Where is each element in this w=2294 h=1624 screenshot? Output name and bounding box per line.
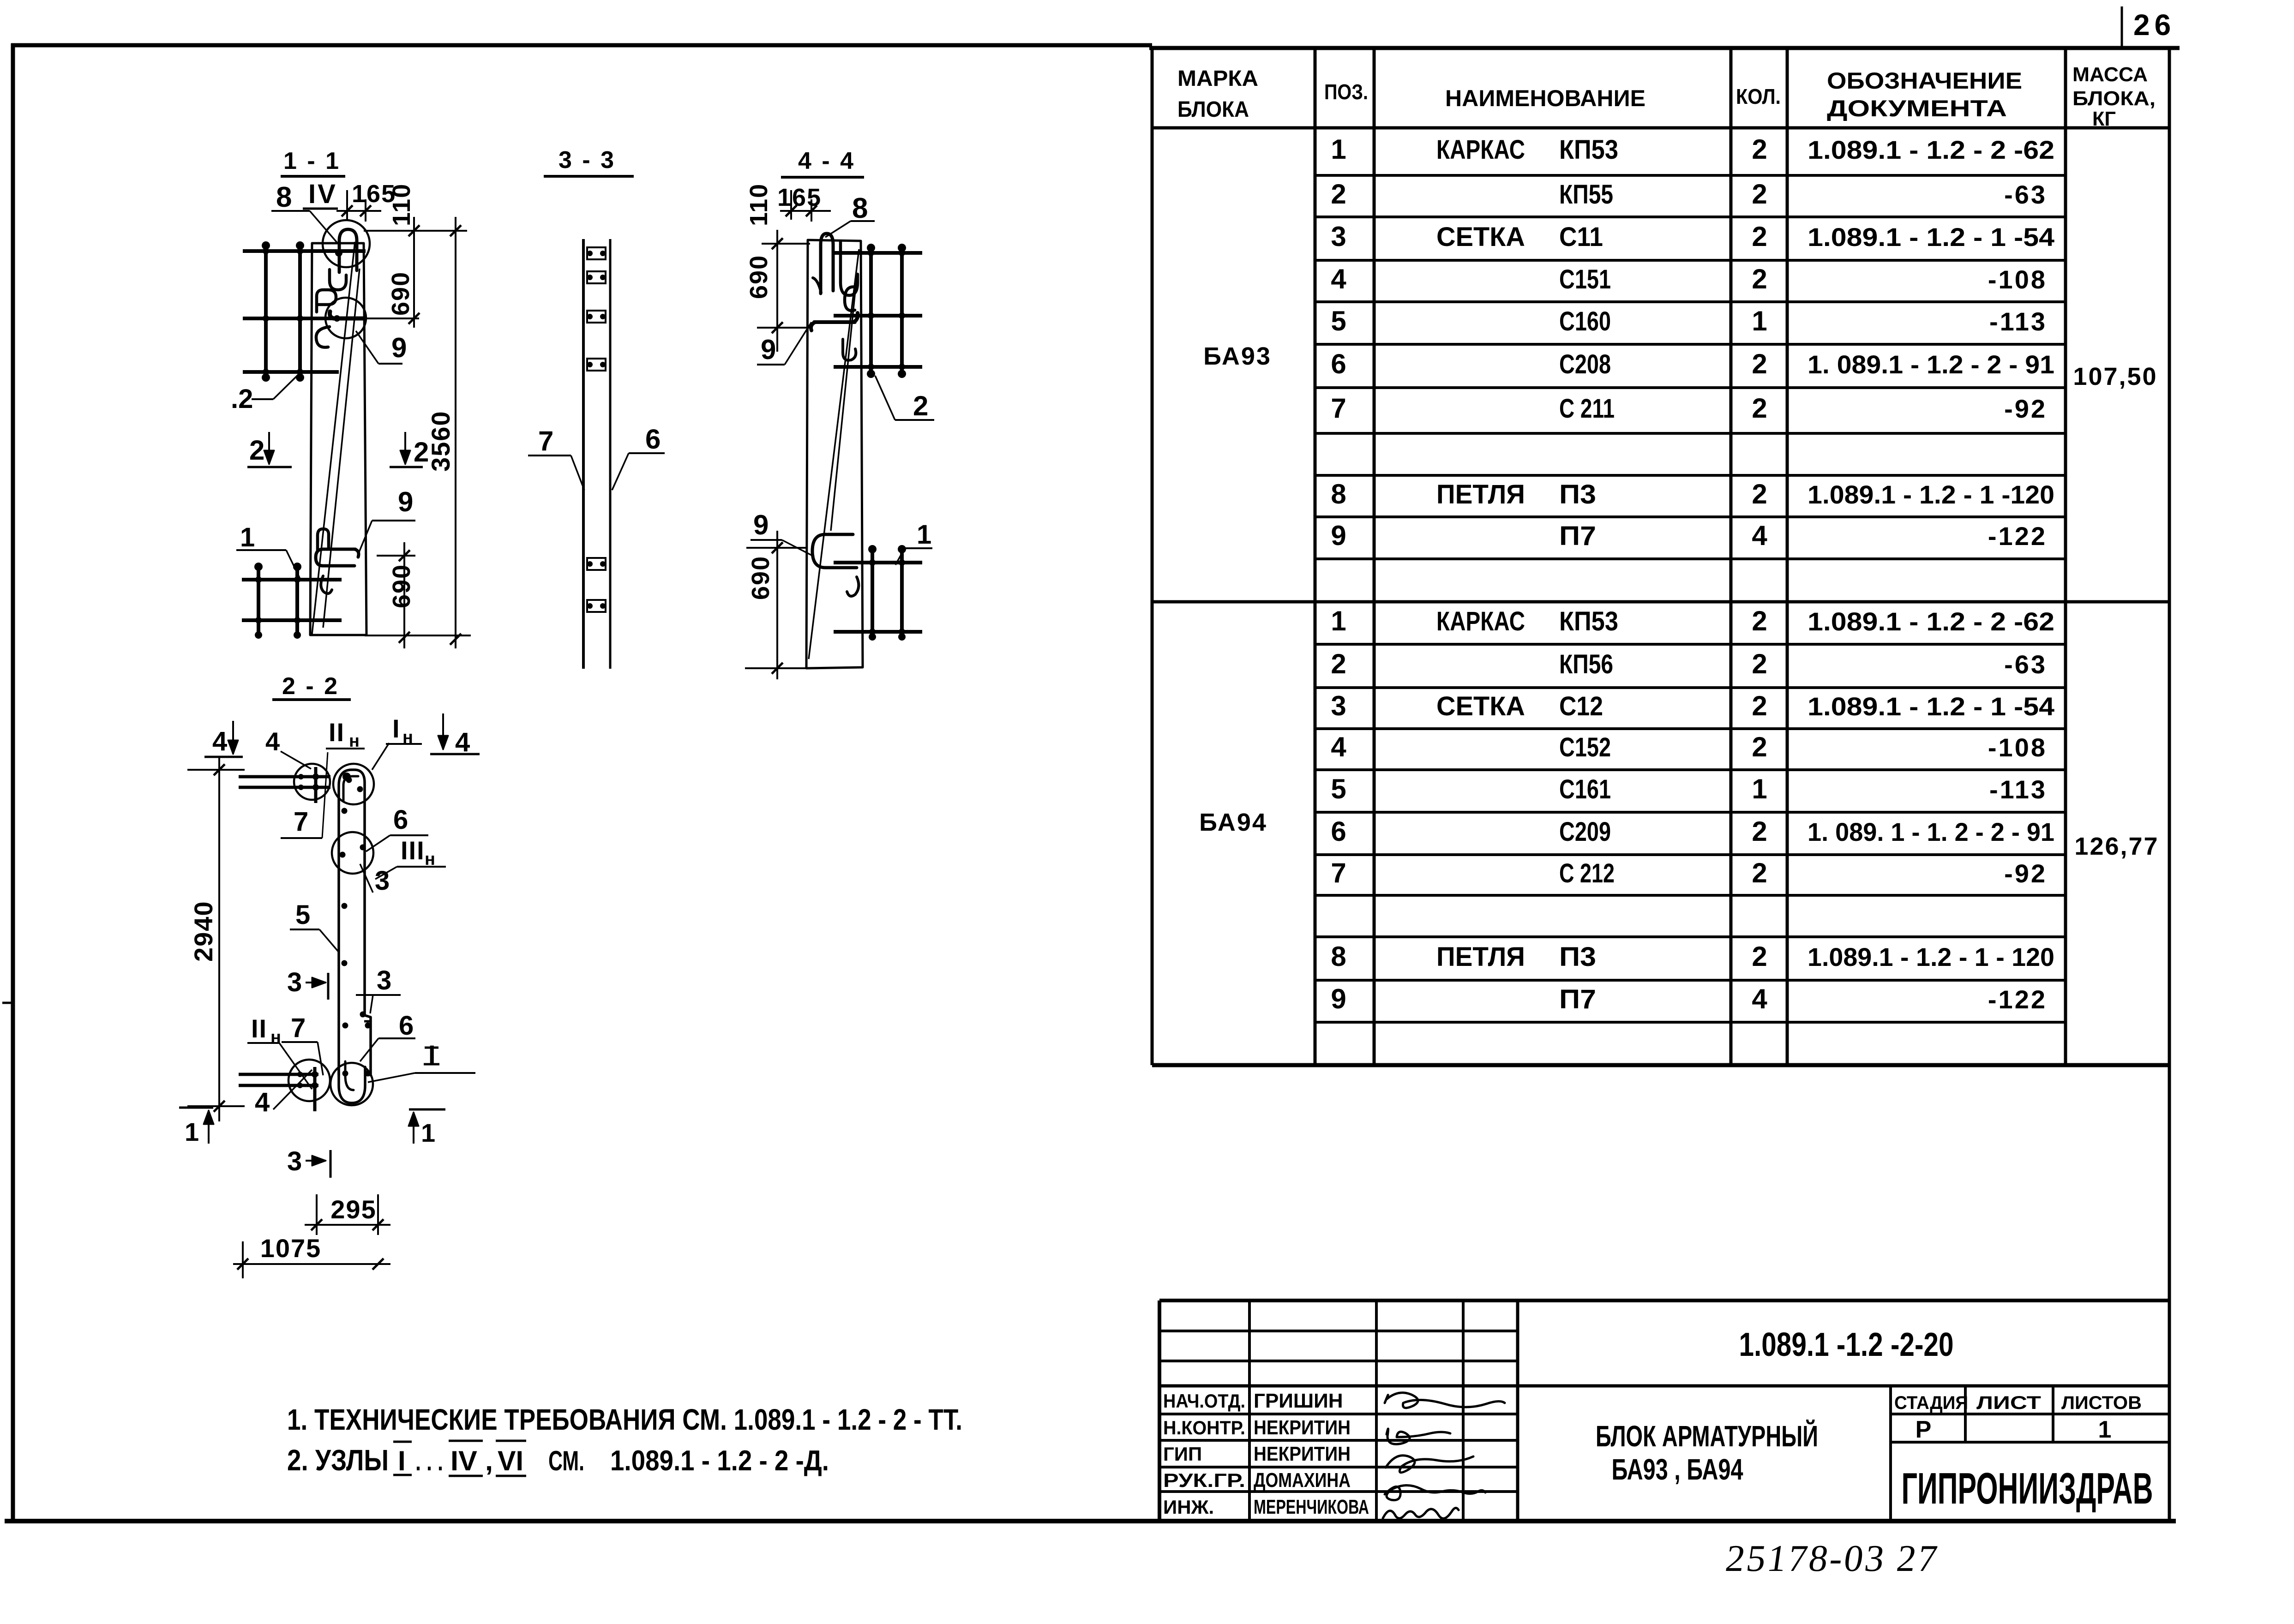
svg-text:С209: С209 bbox=[1559, 817, 1611, 847]
svg-text:9: 9 bbox=[391, 332, 407, 363]
svg-text:2: 2 bbox=[1752, 479, 1767, 509]
svg-text:2: 2 bbox=[1331, 179, 1346, 210]
svg-text:1 - 1: 1 - 1 bbox=[283, 148, 341, 174]
svg-text:3: 3 bbox=[377, 965, 391, 995]
svg-text:-63: -63 bbox=[2004, 180, 2047, 209]
svg-text:690: 690 bbox=[747, 556, 775, 600]
svg-text:4: 4 bbox=[1752, 520, 1767, 551]
svg-text:ДОМАХИНА: ДОМАХИНА bbox=[1254, 1469, 1351, 1492]
svg-text:8: 8 bbox=[852, 192, 868, 224]
svg-text:9: 9 bbox=[1331, 520, 1346, 551]
svg-text:С152: С152 bbox=[1559, 732, 1611, 762]
svg-text:2: 2 bbox=[1752, 348, 1767, 379]
svg-text:РУК.ГР.: РУК.ГР. bbox=[1163, 1469, 1245, 1491]
svg-text:КП56: КП56 bbox=[1559, 649, 1613, 679]
svg-text:2: 2 bbox=[1752, 605, 1767, 636]
svg-text:7: 7 bbox=[538, 425, 553, 456]
svg-text:VI: VI bbox=[498, 1445, 523, 1476]
svg-text:295: 295 bbox=[330, 1195, 376, 1224]
svg-text:ПОЗ.: ПОЗ. bbox=[1324, 80, 1368, 104]
svg-text:8: 8 bbox=[276, 181, 292, 213]
svg-text:-108: -108 bbox=[1988, 265, 2047, 294]
svg-text:С12: С12 bbox=[1559, 691, 1603, 721]
svg-text:С 212: С 212 bbox=[1559, 858, 1615, 888]
svg-text:БА93 , БА94: БА93 , БА94 bbox=[1612, 1453, 1743, 1486]
svg-text:690: 690 bbox=[745, 255, 773, 299]
svg-text:1. 089. 1 - 1. 2 - 2 - 91: 1. 089. 1 - 1. 2 - 2 - 91 bbox=[1808, 817, 2054, 846]
svg-text:1075: 1075 bbox=[260, 1234, 322, 1263]
svg-text:I: I bbox=[398, 1445, 406, 1476]
svg-text:ИНЖ.: ИНЖ. bbox=[1163, 1496, 1214, 1518]
svg-text:II: II bbox=[329, 718, 345, 747]
svg-text:1: 1 bbox=[1331, 134, 1346, 165]
svg-text:1: 1 bbox=[421, 1118, 435, 1147]
svg-text:БЛОК АРМАТУРНЫЙ: БЛОК АРМАТУРНЫЙ bbox=[1596, 1419, 1818, 1453]
svg-text:Р: Р bbox=[1916, 1416, 1932, 1443]
svg-text:126,77: 126,77 bbox=[2074, 833, 2159, 860]
svg-text:8: 8 bbox=[1331, 479, 1346, 509]
svg-text:690: 690 bbox=[388, 564, 415, 608]
svg-text:ОБОЗНАЧЕНИЕ: ОБОЗНАЧЕНИЕ bbox=[1827, 68, 2022, 94]
svg-text:2: 2 bbox=[1752, 648, 1767, 679]
svg-text:110: 110 bbox=[745, 183, 773, 226]
svg-text:6: 6 bbox=[1331, 816, 1346, 847]
svg-text:КГ: КГ bbox=[2092, 108, 2116, 130]
svg-text:2: 2 bbox=[1752, 857, 1767, 888]
svg-text:С161: С161 bbox=[1559, 774, 1611, 804]
svg-text:1: 1 bbox=[185, 1117, 199, 1146]
svg-text:25178-03 27: 25178-03 27 bbox=[1723, 1537, 1941, 1579]
svg-text:2: 2 bbox=[1752, 134, 1767, 165]
svg-text:-113: -113 bbox=[1989, 307, 2047, 336]
svg-text:НЕКРИТИН: НЕКРИТИН bbox=[1254, 1416, 1351, 1439]
svg-text:2: 2 bbox=[1752, 393, 1767, 424]
svg-text:690: 690 bbox=[387, 271, 414, 316]
svg-text:-92: -92 bbox=[2004, 859, 2047, 888]
svg-text:ГИП: ГИП bbox=[1163, 1443, 1202, 1465]
svg-text:ГРИШИН: ГРИШИН bbox=[1254, 1390, 1343, 1412]
svg-text:1: 1 bbox=[1331, 605, 1346, 636]
svg-text:2: 2 bbox=[1752, 731, 1767, 762]
svg-text:НАЧ.ОТД.: НАЧ.ОТД. bbox=[1163, 1390, 1245, 1412]
svg-text:3: 3 bbox=[287, 967, 302, 997]
svg-text:8: 8 bbox=[1331, 941, 1346, 972]
svg-text:-92: -92 bbox=[2004, 394, 2047, 423]
svg-text:3 - 3: 3 - 3 bbox=[558, 147, 616, 174]
svg-text:2 - 2: 2 - 2 bbox=[282, 673, 339, 700]
svg-text:4: 4 bbox=[255, 1087, 270, 1117]
svg-text:4: 4 bbox=[1752, 983, 1767, 1014]
svg-text:ПЕТЛЯ: ПЕТЛЯ bbox=[1436, 479, 1525, 509]
svg-text:9: 9 bbox=[753, 509, 769, 540]
svg-text:6: 6 bbox=[1331, 348, 1346, 379]
svg-text:110: 110 bbox=[388, 183, 415, 226]
svg-text:КАРКАС: КАРКАС bbox=[1436, 135, 1525, 165]
svg-text:2: 2 bbox=[1752, 816, 1767, 847]
svg-text:МАРКА: МАРКА bbox=[1177, 66, 1258, 91]
svg-text:МЕРЕНЧИКОВА: МЕРЕНЧИКОВА bbox=[1254, 1496, 1369, 1518]
svg-text:3: 3 bbox=[1331, 221, 1346, 252]
svg-text:ЛИСТОВ: ЛИСТОВ bbox=[2061, 1393, 2142, 1413]
svg-text:1.089.1 - 1.2 - 2 -62: 1.089.1 - 1.2 - 2 -62 bbox=[1808, 607, 2054, 636]
svg-text:П3: П3 bbox=[1559, 942, 1596, 972]
svg-text:9: 9 bbox=[761, 334, 776, 365]
svg-text:ГИПРОНИИЗДРАВ: ГИПРОНИИЗДРАВ bbox=[1902, 1464, 2153, 1513]
svg-text:-122: -122 bbox=[1988, 521, 2047, 551]
svg-text:2. УЗЛЫ: 2. УЗЛЫ bbox=[287, 1444, 389, 1477]
svg-text:2: 2 bbox=[1331, 648, 1346, 679]
svg-text:5: 5 bbox=[1331, 306, 1346, 336]
svg-text:БА93: БА93 bbox=[1203, 342, 1272, 370]
svg-text:2: 2 bbox=[1752, 179, 1767, 210]
svg-text:1: 1 bbox=[1752, 773, 1767, 804]
svg-text:Н.КОНТР.: Н.КОНТР. bbox=[1163, 1417, 1245, 1438]
svg-text:1.089.1 - 1.2 - 1 -54: 1.089.1 - 1.2 - 1 -54 bbox=[1808, 692, 2054, 721]
svg-text:26: 26 bbox=[2133, 8, 2175, 42]
svg-text:4: 4 bbox=[1331, 264, 1346, 294]
svg-text:П3: П3 bbox=[1559, 479, 1596, 509]
svg-text:1.089.1 -1.2 -2-20: 1.089.1 -1.2 -2-20 bbox=[1739, 1326, 1954, 1363]
svg-text:С160: С160 bbox=[1559, 306, 1611, 336]
svg-text:БА94: БА94 bbox=[1199, 809, 1267, 836]
svg-text:9: 9 bbox=[398, 486, 413, 517]
svg-text:3560: 3560 bbox=[426, 410, 455, 472]
svg-text:7: 7 bbox=[291, 1013, 306, 1043]
svg-text:1.089.1 - 1.2 - 1 -120: 1.089.1 - 1.2 - 1 -120 bbox=[1808, 480, 2054, 509]
svg-text:2: 2 bbox=[414, 437, 429, 467]
svg-text:5: 5 bbox=[1331, 773, 1346, 804]
svg-text:КП53: КП53 bbox=[1559, 135, 1618, 165]
svg-text:6: 6 bbox=[399, 1011, 414, 1041]
svg-text:4 - 4: 4 - 4 bbox=[798, 148, 855, 174]
svg-text:-113: -113 bbox=[1989, 775, 2047, 804]
svg-text:IV: IV bbox=[308, 179, 337, 209]
svg-text:2: 2 bbox=[249, 435, 264, 466]
svg-text:С 211: С 211 bbox=[1559, 394, 1615, 424]
svg-text:7: 7 bbox=[1331, 857, 1346, 888]
svg-text:6: 6 bbox=[645, 424, 661, 455]
svg-text:СТАДИЯ: СТАДИЯ bbox=[1894, 1393, 1968, 1413]
svg-text:КОЛ.: КОЛ. bbox=[1736, 84, 1781, 108]
svg-text:2940: 2940 bbox=[189, 900, 218, 962]
svg-text:4: 4 bbox=[212, 726, 227, 756]
svg-text:2: 2 bbox=[913, 390, 928, 421]
svg-text:1.089.1 - 1.2 - 2 -62: 1.089.1 - 1.2 - 2 -62 bbox=[1808, 135, 2054, 164]
svg-text:1. 089.1 - 1.2 - 2 - 91: 1. 089.1 - 1.2 - 2 - 91 bbox=[1808, 350, 2054, 379]
svg-text:4: 4 bbox=[455, 727, 470, 757]
svg-text:КП55: КП55 bbox=[1559, 180, 1613, 210]
svg-text:1.089.1 - 1.2 - 1 - 120: 1.089.1 - 1.2 - 1 - 120 bbox=[1808, 942, 2054, 971]
svg-text:П7: П7 bbox=[1559, 984, 1596, 1014]
svg-text:2: 2 bbox=[1752, 941, 1767, 972]
svg-text:3: 3 bbox=[287, 1146, 302, 1176]
svg-text:С151: С151 bbox=[1559, 264, 1611, 294]
svg-text:3: 3 bbox=[1331, 690, 1346, 721]
svg-text:1: 1 bbox=[240, 522, 255, 552]
svg-text:6: 6 bbox=[393, 805, 408, 835]
svg-text:БЛОКА,: БЛОКА, bbox=[2072, 87, 2156, 110]
svg-text:1: 1 bbox=[2098, 1416, 2112, 1443]
svg-text:БЛОКА: БЛОКА bbox=[1177, 97, 1249, 122]
svg-text:ДОКУМЕНТА: ДОКУМЕНТА bbox=[1827, 96, 2007, 121]
svg-text:7: 7 bbox=[1331, 393, 1346, 424]
svg-text:1: 1 bbox=[917, 520, 931, 550]
svg-text:П7: П7 bbox=[1559, 521, 1596, 551]
svg-text:5: 5 bbox=[295, 900, 310, 930]
svg-text:II: II bbox=[251, 1014, 267, 1043]
svg-text:9: 9 bbox=[1331, 983, 1346, 1014]
svg-text:3: 3 bbox=[375, 866, 390, 896]
svg-text:МАССА: МАССА bbox=[2072, 63, 2148, 86]
svg-text:С11: С11 bbox=[1559, 222, 1603, 252]
svg-text:.2: .2 bbox=[231, 384, 253, 414]
svg-text:2: 2 bbox=[1752, 690, 1767, 721]
svg-text:ЛИСТ: ЛИСТ bbox=[1976, 1393, 2041, 1413]
svg-text:-122: -122 bbox=[1988, 985, 2047, 1014]
svg-text:1. ТЕХНИЧЕСКИЕ ТРЕБОВАНИЯ СМ: 1. ТЕХНИЧЕСКИЕ ТРЕБОВАНИЯ СМ. 1.089.1 - … bbox=[287, 1403, 962, 1436]
svg-text:7: 7 bbox=[294, 807, 308, 837]
svg-text:1: 1 bbox=[1752, 306, 1767, 336]
svg-text:КП53: КП53 bbox=[1559, 606, 1618, 636]
svg-text:СМ.: СМ. bbox=[548, 1445, 584, 1476]
svg-text:III: III bbox=[401, 836, 425, 865]
svg-text:4: 4 bbox=[1331, 731, 1346, 762]
svg-text:2: 2 bbox=[1752, 264, 1767, 294]
svg-text:4: 4 bbox=[265, 727, 280, 756]
svg-text:-63: -63 bbox=[2004, 650, 2047, 679]
svg-text:2: 2 bbox=[1752, 221, 1767, 252]
svg-text:I: I bbox=[392, 714, 400, 743]
svg-text:1.089.1 - 1.2 - 1 -54: 1.089.1 - 1.2 - 1 -54 bbox=[1808, 222, 2054, 252]
svg-text:НАИМЕНОВАНИЕ: НАИМЕНОВАНИЕ bbox=[1445, 85, 1645, 111]
svg-text:С208: С208 bbox=[1559, 349, 1611, 379]
svg-text:. . .: . . . bbox=[415, 1448, 443, 1476]
svg-text:КАРКАС: КАРКАС bbox=[1436, 606, 1525, 636]
svg-text:107,50: 107,50 bbox=[2073, 363, 2157, 390]
svg-text:ПЕТЛЯ: ПЕТЛЯ bbox=[1436, 942, 1525, 972]
svg-text:НЕКРИТИН: НЕКРИТИН bbox=[1254, 1443, 1351, 1465]
svg-text:-108: -108 bbox=[1988, 733, 2047, 762]
svg-text:1.089.1 - 1.2 - 2 -Д.: 1.089.1 - 1.2 - 2 -Д. bbox=[610, 1445, 829, 1477]
svg-text:СЕТКА: СЕТКА bbox=[1436, 222, 1525, 252]
svg-text:IV ,: IV , bbox=[450, 1445, 493, 1476]
svg-text:СЕТКА: СЕТКА bbox=[1436, 691, 1525, 721]
